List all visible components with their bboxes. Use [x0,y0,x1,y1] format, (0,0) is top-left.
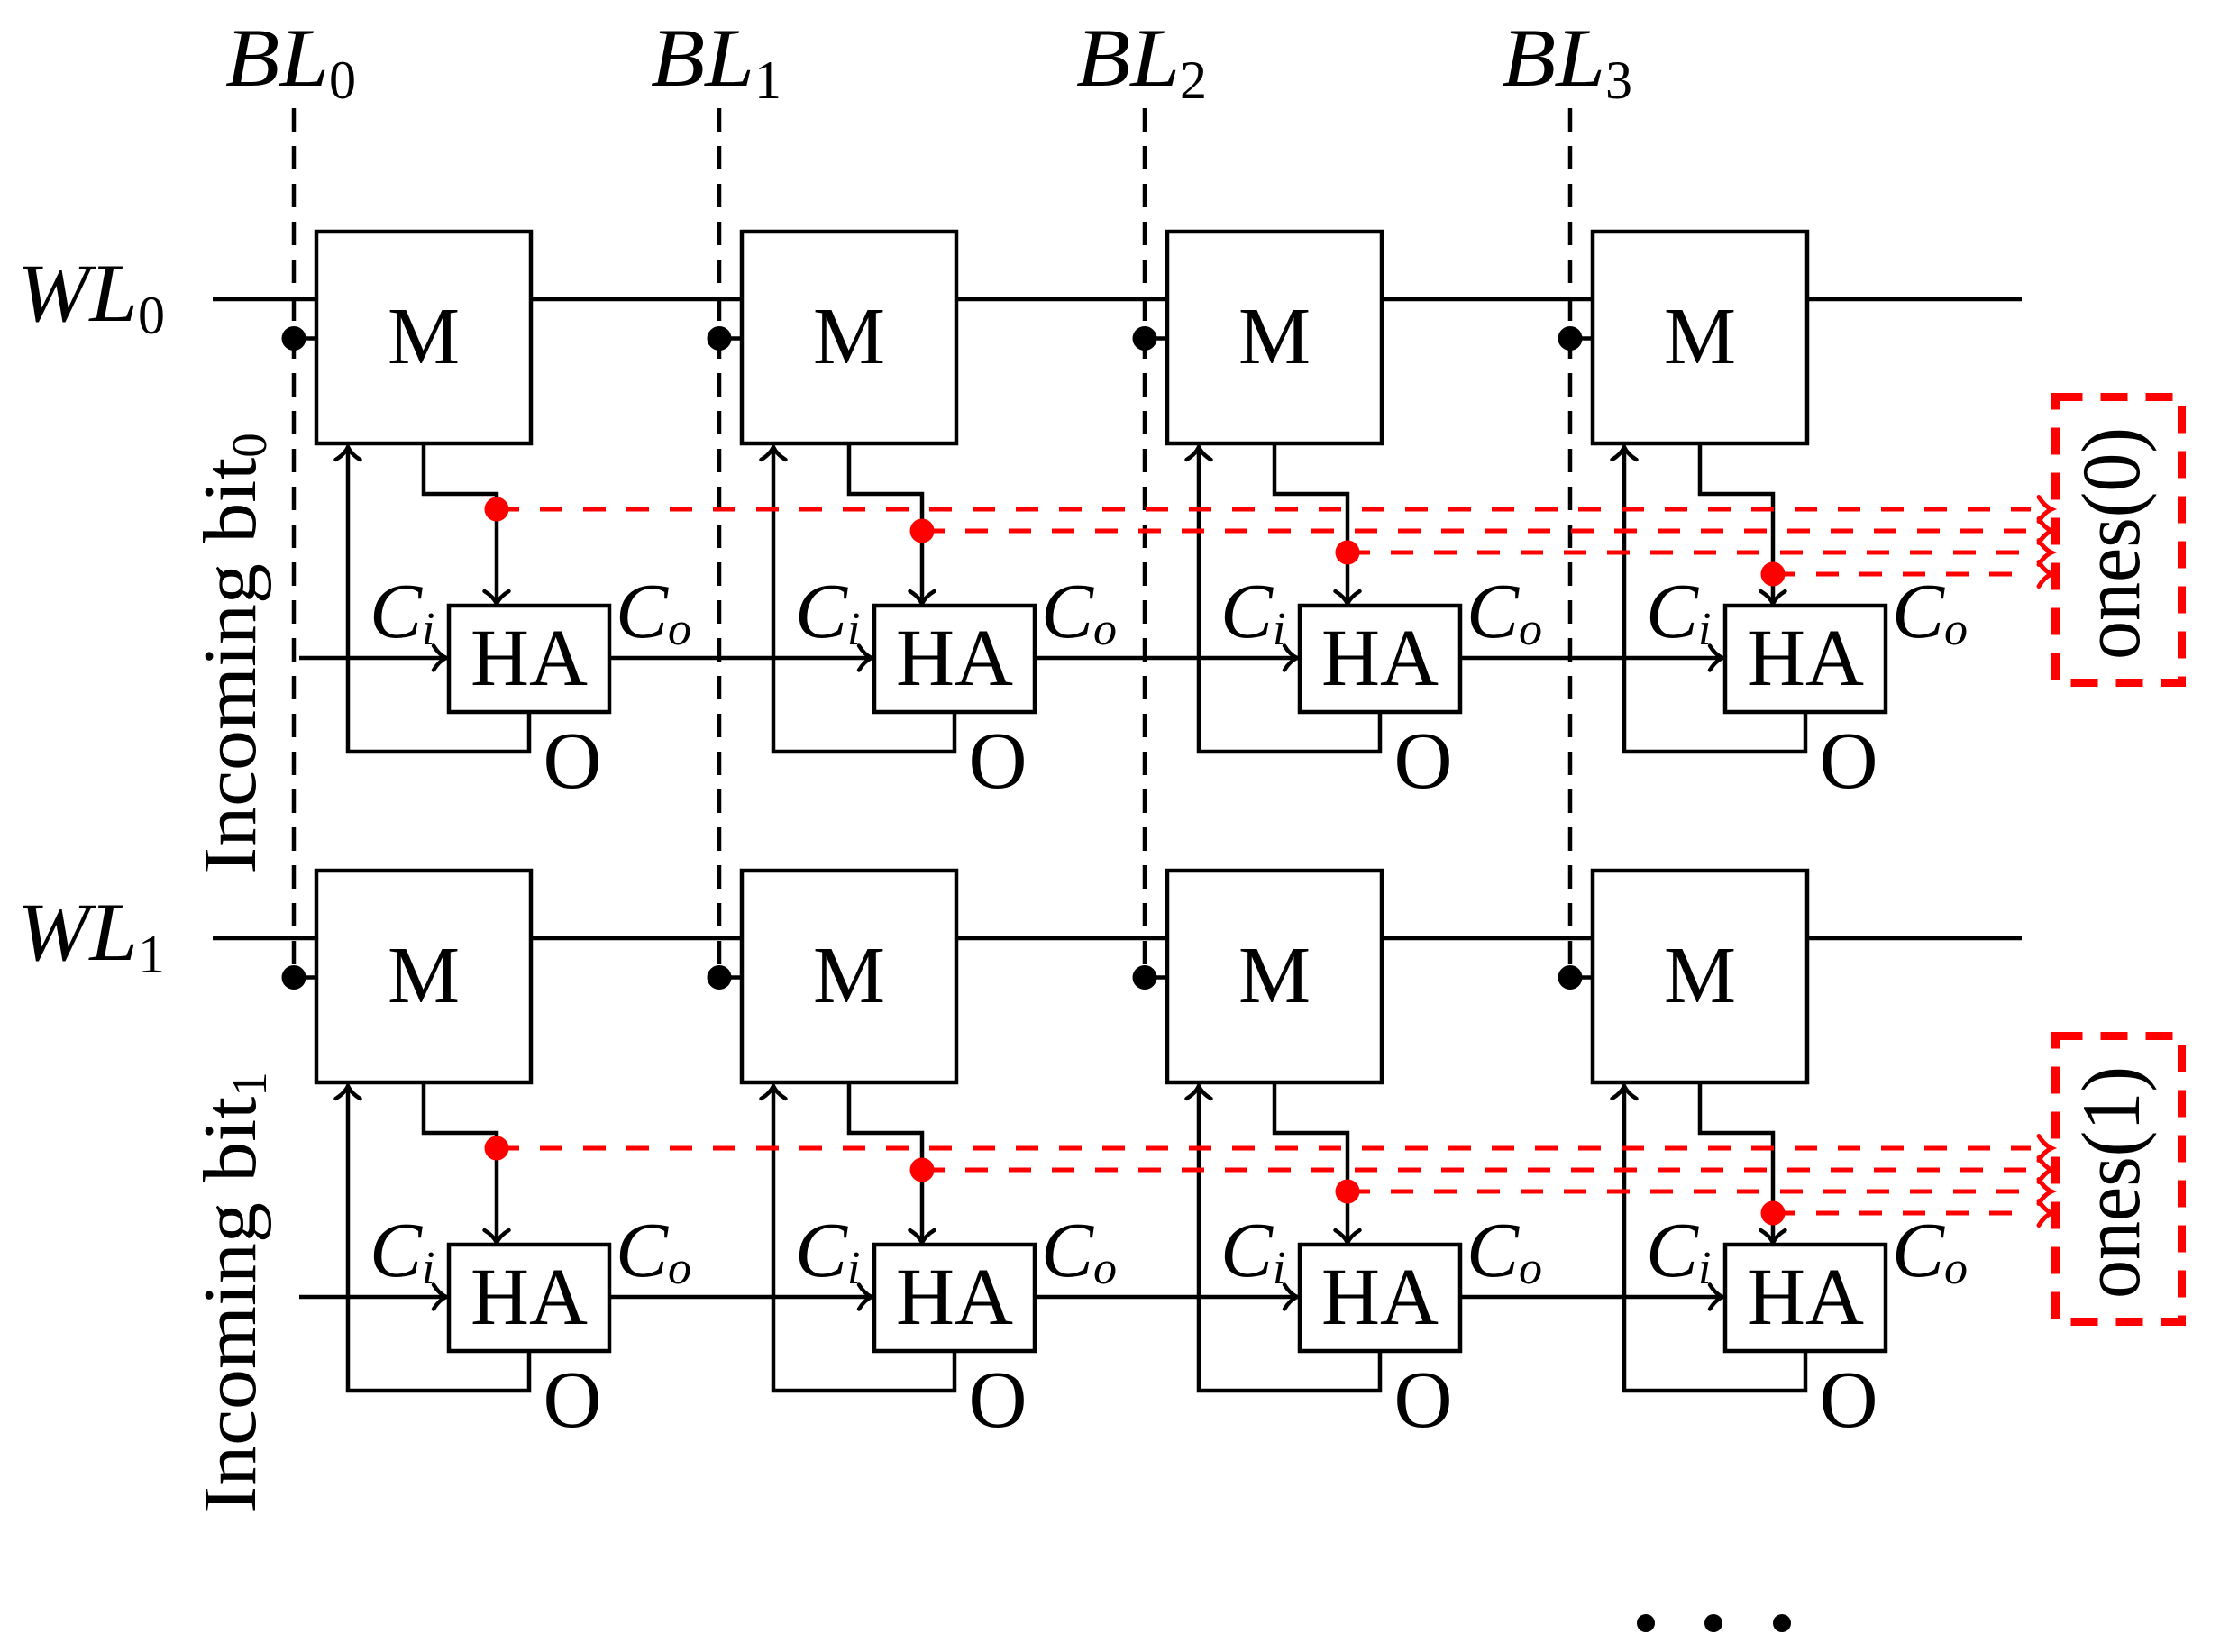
wire: word line WL1 [213,936,2022,941]
wire: M r0c1 output to HA [849,443,922,600]
svg-text:HA: HA [470,614,588,703]
wire: bit line BL0 (dashed) [292,108,297,977]
svg-text:O: O [544,1355,602,1445]
wire: M r1c0 output to HA [424,1082,497,1239]
junction dot BL1 row 1 [708,965,743,990]
wire: bit line BL2 (dashed) [1143,108,1147,977]
svg-text:M: M [388,292,460,381]
wire: HA r1c0 output O loop back to M [348,1090,529,1391]
memory cell M r0c0 [316,232,531,443]
svg-text:Incoming bit0: Incoming bit0 [188,433,277,874]
memory cell M r0c1 [742,232,956,443]
svg-text:M: M [1664,931,1736,1020]
memory cell M r0c2 [1167,232,1382,443]
junction dot BL3 row 0 [1558,326,1594,351]
svg-text:M: M [813,931,885,1020]
wire: HA r0c1 output O loop back to M [773,451,955,752]
svg-text:HA: HA [1747,614,1864,703]
arrowhead into M r1c2 bottom [1187,1086,1211,1099]
svg-text:O: O [544,716,602,806]
wire: HA r0c0 output O loop back to M [348,451,529,752]
half adder HA r1c3 [1725,1245,1886,1351]
red arrowhead into ones(0) box [2039,519,2051,543]
red arrowhead into ones(1) box [2039,1136,2051,1161]
ones(0) accumulator box (red dashed) [2056,397,2182,683]
svg-text:HA: HA [896,1253,1013,1342]
junction dot BL3 row 1 [1558,965,1594,990]
wire: red dashed ones tap row 1 col 2 [1336,1180,2032,1204]
arrowhead into HA r1c1 top [910,1230,935,1243]
svg-text:M: M [1664,292,1736,381]
svg-text:M: M [1238,931,1311,1020]
wire: red dashed ones tap row 0 col 0 [485,497,2032,522]
wire: M r1c2 output to HA [1274,1082,1348,1239]
red arrowhead into ones(0) box [2039,497,2051,522]
svg-text:HA: HA [1747,1253,1864,1342]
memory cell M r1c1 [742,871,956,1082]
svg-text:M: M [388,931,460,1020]
wire: carry chain row 0 [299,656,1886,661]
half adder HA r0c3 [1725,606,1886,712]
svg-text:M: M [813,292,885,381]
junction dot BL0 row 1 [282,965,317,990]
red arrowhead into ones(0) box [2039,541,2051,565]
half adder HA r0c0 [449,606,609,712]
wire: M r0c2 output to HA [1274,443,1348,600]
half adder HA r1c0 [449,1245,609,1351]
arrowhead into M r0c0 bottom [336,447,361,460]
half adder HA r1c2 [1300,1245,1460,1351]
wire: M r0c0 output to HA [424,443,497,600]
red arrowhead into ones(1) box [2039,1201,2051,1226]
arrowhead into HA r1c2 Ci [1284,1285,1297,1310]
wire: M r0c3 output to HA [1700,443,1773,600]
junction dot BL1 row 0 [708,326,743,351]
arrowhead into M r0c3 bottom [1612,447,1637,460]
wire: red dashed ones tap row 1 col 3 [1761,1201,2032,1226]
svg-text:HA: HA [1321,614,1439,703]
wire: red dashed ones tap row 0 col 1 [910,519,2032,543]
arrowhead into M r1c1 bottom [762,1086,786,1099]
wire: word line WL0 [213,297,2022,302]
wire: HA r0c3 output O loop back to M [1624,451,1805,752]
ones(1) accumulator box (red dashed) [2056,1036,2182,1322]
wire: HA r1c3 output O loop back to M [1624,1090,1805,1391]
arrowhead into M r1c3 bottom [1612,1086,1637,1099]
svg-text:HA: HA [896,614,1013,703]
arrowhead into HA r1c1 Ci [859,1285,872,1310]
svg-text:ones(1): ones(1) [2065,1066,2157,1299]
memory cell M r1c0 [316,871,531,1082]
wire: red dashed ones tap row 0 col 3 [1761,562,2032,587]
wire: HA r1c1 output O loop back to M [773,1090,955,1391]
arrowhead into HA r0c3 Ci [1710,646,1722,671]
wire: red dashed ones tap row 1 col 0 [485,1136,2032,1161]
half adder HA r0c2 [1300,606,1460,712]
svg-text:O: O [1394,716,1453,806]
wire: HA r0c2 output O loop back to M [1199,451,1380,752]
memory cell M r1c3 [1593,871,1807,1082]
half adder HA r1c1 [874,1245,1035,1351]
continuation dots [1637,1614,1791,1632]
arrowhead into HA r1c3 Ci [1710,1285,1722,1310]
arrowhead into HA r1c2 top [1336,1230,1360,1243]
memory cell M r1c2 [1167,871,1382,1082]
arrowhead into HA r0c3 top [1761,591,1786,604]
arrowhead into HA r0c2 top [1336,591,1360,604]
svg-text:M: M [1238,292,1311,381]
svg-text:O: O [969,716,1028,806]
arrowhead into HA r0c0 top [485,591,509,604]
arrowhead into M r0c2 bottom [1187,447,1211,460]
arrowhead into M r1c0 bottom [336,1086,361,1099]
junction dot BL0 row 0 [282,326,317,351]
arrowhead into HA r0c1 top [910,591,935,604]
red arrowhead into ones(1) box [2039,1158,2051,1182]
svg-text:O: O [1820,1355,1878,1445]
svg-text:HA: HA [470,1253,588,1342]
wire: HA r1c2 output O loop back to M [1199,1090,1380,1391]
wire: red dashed ones tap row 0 col 2 [1336,541,2032,565]
red arrowhead into ones(1) box [2039,1180,2051,1204]
junction dot BL2 row 0 [1133,326,1168,351]
arrowhead into HA r1c3 top [1761,1230,1786,1243]
arrowhead into HA r0c1 Ci [859,646,872,671]
arrowhead into HA r0c0 Ci [434,646,446,671]
red arrowhead into ones(0) box [2039,562,2051,587]
svg-text:Incoming bit1: Incoming bit1 [188,1072,277,1513]
arrowhead into HA r0c2 Ci [1284,646,1297,671]
svg-text:O: O [969,1355,1028,1445]
svg-text:HA: HA [1321,1253,1439,1342]
svg-text:O: O [1394,1355,1453,1445]
wire: red dashed ones tap row 1 col 1 [910,1158,2032,1182]
svg-text:ones(0): ones(0) [2065,427,2157,660]
junction dot BL2 row 1 [1133,965,1168,990]
wire: bit line BL1 (dashed) [717,108,722,977]
arrowhead into M r0c1 bottom [762,447,786,460]
svg-text:O: O [1820,716,1878,806]
arrowhead into HA r1c0 Ci [434,1285,446,1310]
wire: bit line BL3 (dashed) [1568,108,1573,977]
arrowhead into HA r1c0 top [485,1230,509,1243]
half adder HA r0c1 [874,606,1035,712]
wire: M r1c3 output to HA [1700,1082,1773,1239]
wire: M r1c1 output to HA [849,1082,922,1239]
memory cell M r0c3 [1593,232,1807,443]
wire: carry chain row 1 [299,1295,1886,1300]
